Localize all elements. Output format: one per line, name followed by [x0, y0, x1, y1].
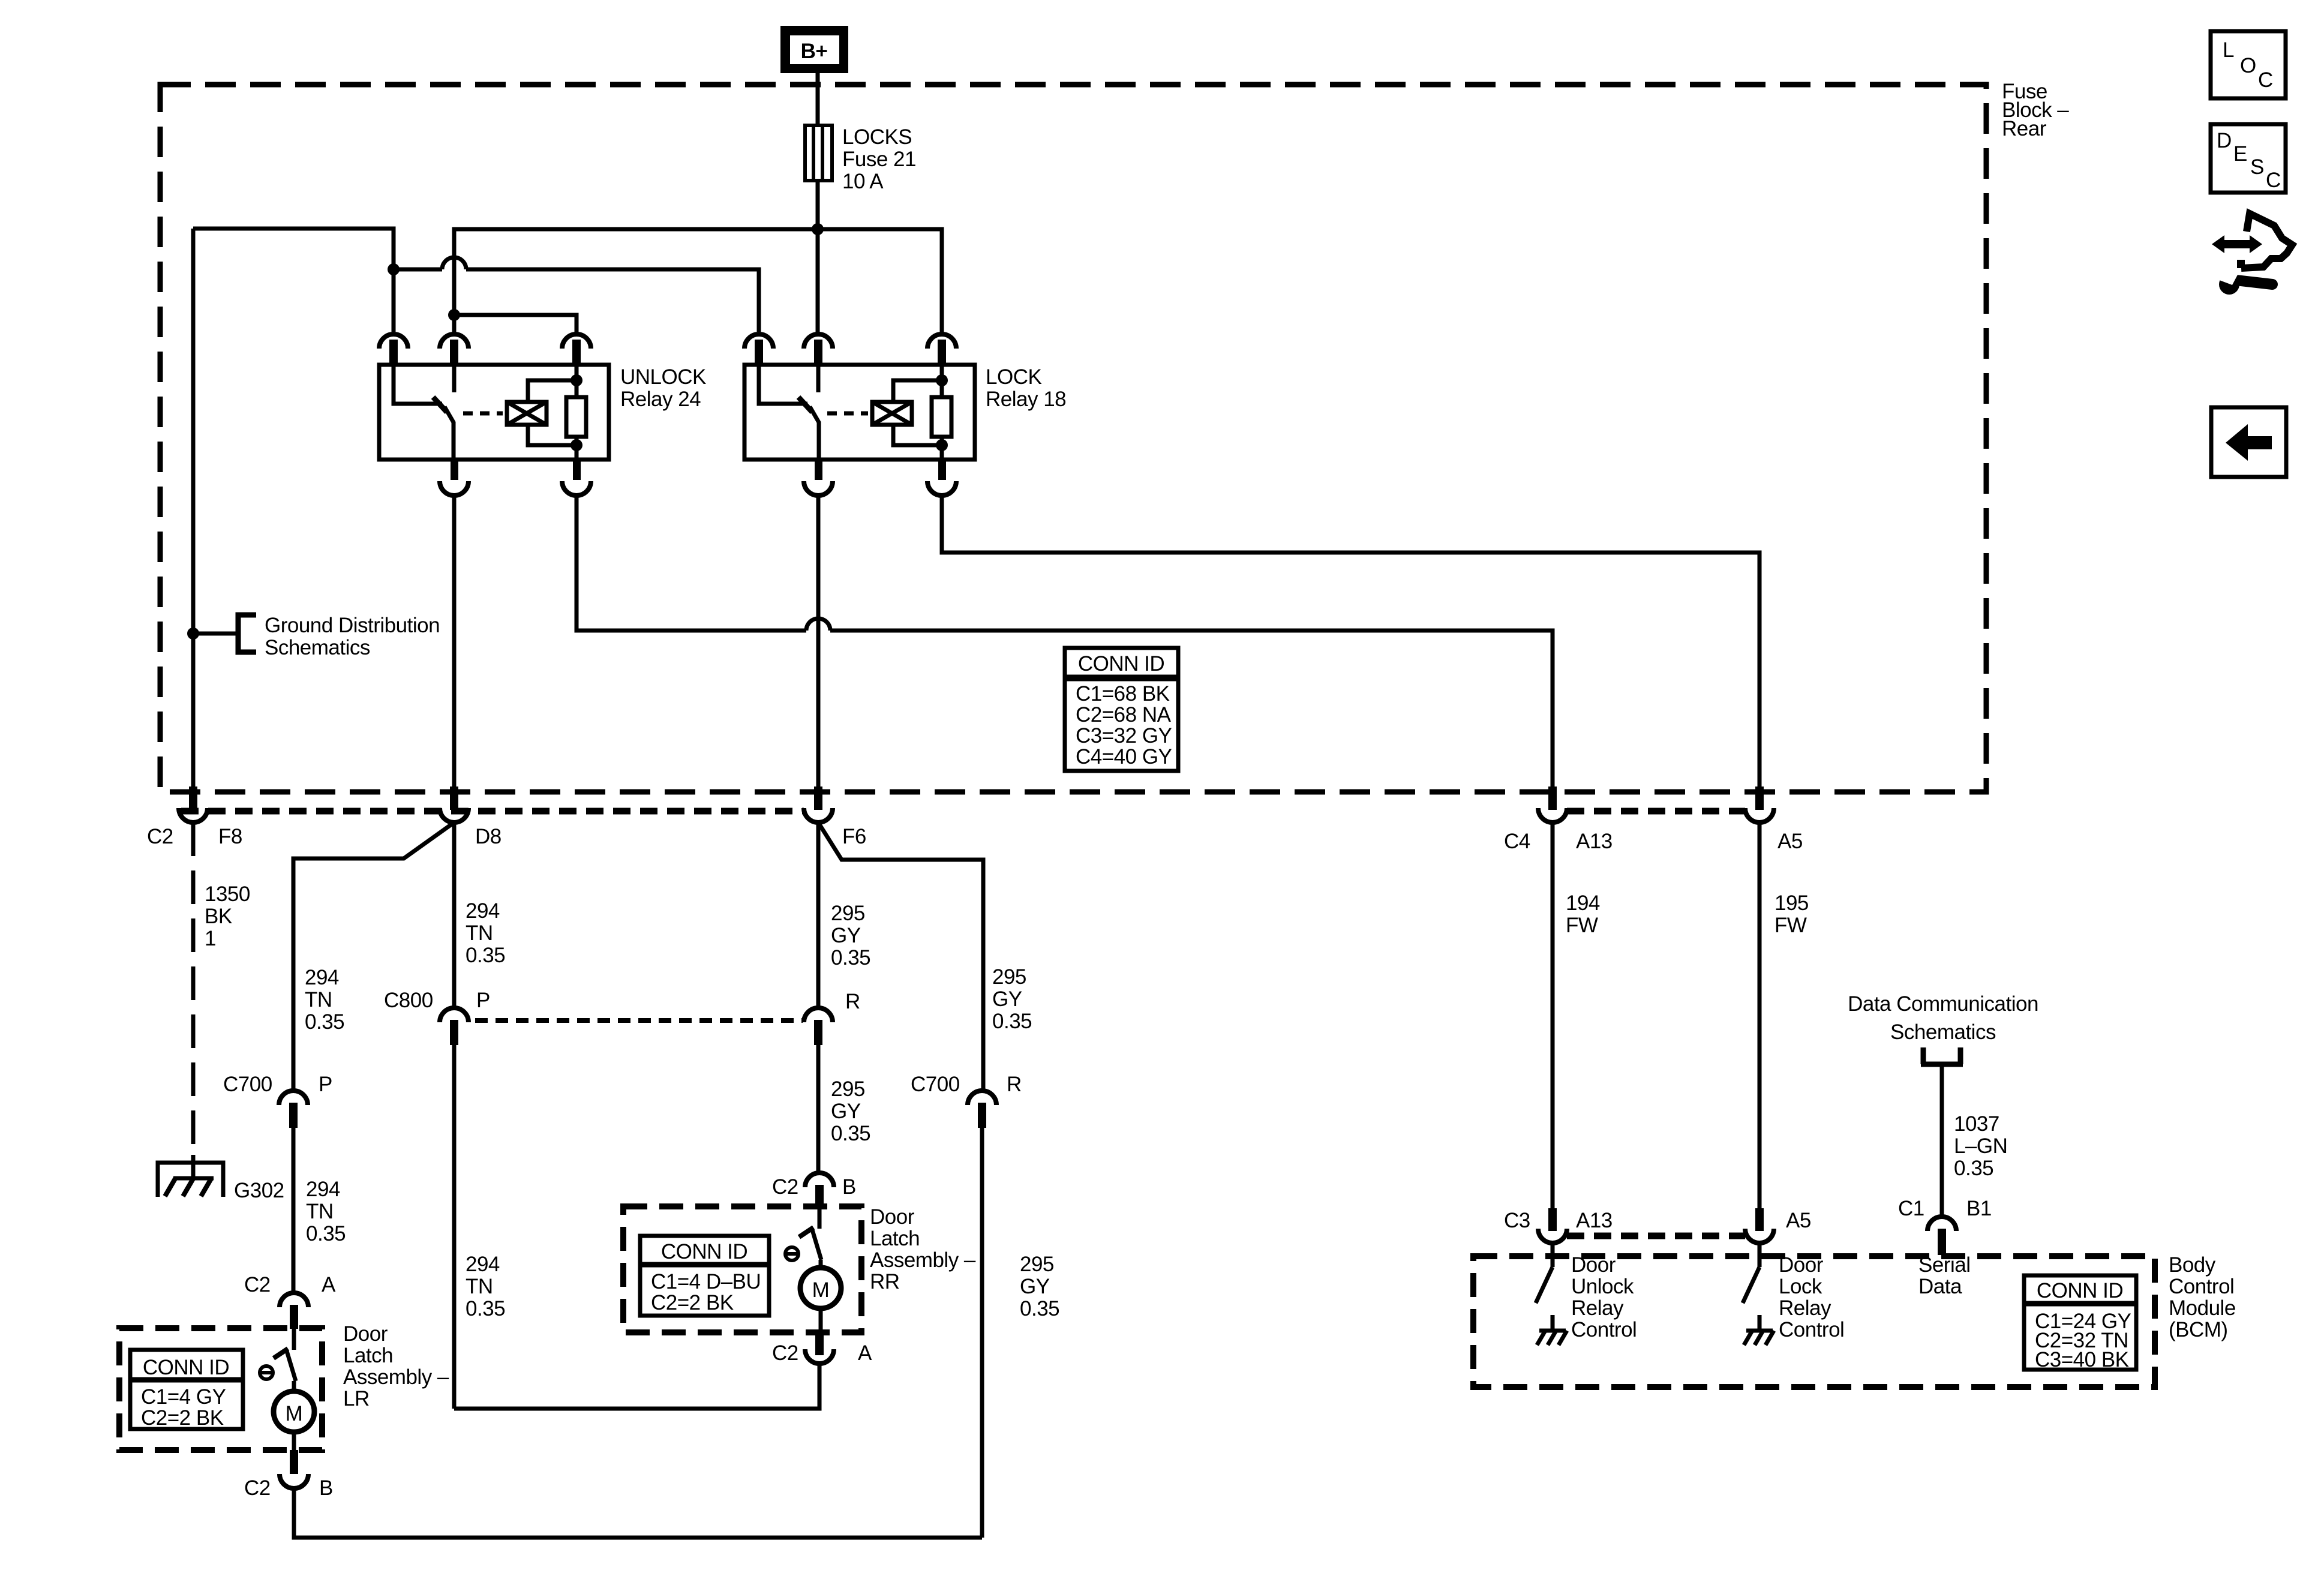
svg-text:M: M	[812, 1278, 830, 1302]
svg-text:GY: GY	[831, 924, 861, 947]
wire UNLOCK 87a down right to A13 column with hop	[577, 496, 806, 631]
svg-text:CONN ID: CONN ID	[1078, 652, 1164, 676]
icon LOC button	[2211, 31, 2286, 98]
connector A5 BCM	[1745, 1208, 1774, 1243]
connector UNLOCK pin 30 top-middle	[440, 334, 469, 365]
wire branch x757 to UNLOCK relay pin 86	[454, 315, 577, 334]
svg-text:C2: C2	[772, 1175, 798, 1199]
label C2 F8	[147, 825, 242, 848]
connector C700 P	[279, 1091, 308, 1128]
svg-text:Control: Control	[2169, 1275, 2234, 1298]
label 1037 L-GN 0.35	[1954, 1112, 2007, 1180]
conn table CONN ID fuse block	[1065, 648, 1178, 771]
label UNLOCK Relay 24	[620, 365, 706, 411]
svg-text:BK: BK	[205, 905, 232, 928]
svg-text:C4=40 GY: C4=40 GY	[1076, 745, 1172, 769]
connector LOCK pin 87 bottom-left	[804, 460, 833, 496]
dashed inline connector C800 P to R	[475, 1018, 803, 1023]
svg-text:LOCKS: LOCKS	[842, 125, 912, 149]
svg-text:10 A: 10 A	[842, 170, 884, 193]
wire B+ junction right to LOCK relay pin 86	[818, 229, 942, 334]
wire LOCK fixed contact L	[759, 365, 807, 404]
svg-text:C2: C2	[244, 1476, 271, 1500]
svg-text:294: 294	[466, 899, 500, 923]
op UNLOCK Relay 24 box	[379, 365, 609, 460]
wire serial data from bracket	[1940, 1064, 1944, 1217]
svg-text:195: 195	[1774, 891, 1809, 915]
svg-text:Unlock: Unlock	[1571, 1275, 1634, 1298]
svg-text:C700: C700	[223, 1073, 272, 1096]
svg-text:C3=32 GY: C3=32 GY	[1076, 724, 1172, 748]
svg-text:B: B	[319, 1476, 333, 1500]
label C2 A RR	[772, 1341, 872, 1365]
connector UNLOCK pin 87 bottom-left	[440, 460, 469, 496]
svg-text:1037: 1037	[1954, 1112, 1999, 1136]
node dot resistor top UNLOCK	[571, 374, 582, 386]
contact tick UNLOCK	[433, 397, 447, 412]
svg-text:F6: F6	[842, 825, 866, 848]
wire D8 straight to C800 P	[452, 822, 457, 1008]
svg-text:C1: C1	[1898, 1197, 1924, 1220]
svg-text:295: 295	[992, 965, 1026, 989]
svg-text:295: 295	[831, 1077, 865, 1101]
node Ground Distribution junction dot	[187, 628, 199, 640]
svg-text:R: R	[1007, 1073, 1022, 1096]
component Door Latch Assembly LR dashed box	[119, 1328, 322, 1450]
svg-text:C1=68 BK: C1=68 BK	[1076, 682, 1170, 706]
label Ground Distribution Schematics	[265, 614, 440, 659]
connector D8	[440, 786, 469, 822]
svg-text:Body: Body	[2169, 1253, 2216, 1277]
svg-text:Assembly –: Assembly –	[343, 1365, 449, 1389]
node junction dot x757	[448, 309, 460, 321]
wire D8 branch diagonal to C700 P column	[293, 822, 454, 1091]
connector UNLOCK pin 86 top-right	[562, 334, 591, 365]
fuse LOCKS Fuse 21 10A	[805, 125, 832, 181]
svg-text:E: E	[2233, 142, 2247, 166]
svg-text:L: L	[2223, 38, 2234, 62]
svg-text:(BCM): (BCM)	[2169, 1318, 2228, 1341]
svg-text:C800: C800	[384, 989, 433, 1012]
label C700 P	[223, 1073, 332, 1096]
svg-text:Door: Door	[1779, 1253, 1824, 1277]
label Serial Data	[1918, 1253, 1970, 1298]
label Door Latch Assembly LR	[343, 1322, 449, 1410]
polarity mark RR latch	[785, 1247, 798, 1260]
wire UNLOCK 87 down to D8	[452, 496, 457, 787]
node dot resistor bottom LOCK	[936, 439, 948, 451]
bracket Ground Distribution Schematics	[238, 615, 256, 652]
svg-text:1350: 1350	[205, 882, 250, 906]
conn table CONN ID BCM	[2024, 1275, 2136, 1371]
wire C800 P column down	[452, 1045, 457, 1409]
conn table CONN ID LR latch	[130, 1350, 243, 1430]
svg-text:C2=2 BK: C2=2 BK	[651, 1291, 734, 1314]
svg-text:Door: Door	[870, 1205, 915, 1229]
connector LOCK pin 87a bottom-right	[927, 460, 956, 496]
fuse block Fuse Block Rear dashed boundary	[160, 85, 1986, 792]
node B+ junction dot	[812, 223, 824, 235]
wire F6 straight to C800 R	[816, 822, 821, 1008]
connector C700 R	[968, 1091, 996, 1128]
wire LR latch B bottom run to C700 R column	[294, 1488, 982, 1538]
svg-text:L–GN: L–GN	[1954, 1134, 2007, 1158]
icon back arrow button	[2211, 407, 2286, 477]
motor M RR latch	[800, 1260, 841, 1332]
ground BCM unlock driver	[1537, 1315, 1567, 1345]
node junction dot x656	[388, 263, 400, 275]
svg-text:Schematics: Schematics	[265, 636, 370, 659]
connector C2 B LR latch	[280, 1450, 308, 1488]
svg-text:Relay 18: Relay 18	[986, 388, 1066, 411]
svg-text:R: R	[845, 990, 860, 1013]
connector C2 F8	[179, 786, 208, 822]
dotted connector row C4 A13 A5	[1567, 808, 1745, 815]
svg-text:0.35: 0.35	[466, 944, 505, 967]
svg-text:Latch: Latch	[870, 1227, 920, 1250]
svg-text:294: 294	[466, 1253, 500, 1276]
svg-text:B: B	[842, 1175, 856, 1199]
svg-text:Ground Distribution: Ground Distribution	[265, 614, 440, 637]
svg-text:A: A	[322, 1273, 336, 1296]
ground BCM lock driver	[1744, 1315, 1774, 1345]
svg-text:B+: B+	[801, 40, 828, 63]
svg-text:C: C	[2266, 169, 2281, 192]
label 295 GY 0.35 below C700 R	[1020, 1253, 1059, 1320]
switch Door Lock Relay Control	[1743, 1243, 1759, 1303]
wire B+ feed vertical	[816, 73, 820, 226]
wire cross feed to LOCK relay pin 85 with hop	[394, 268, 442, 272]
icon dog head with arrow and wrench	[2212, 214, 2292, 295]
svg-text:CONN ID: CONN ID	[143, 1356, 229, 1379]
connector UNLOCK pin 85 top-left	[379, 334, 408, 365]
wire coil top loop UNLOCK	[528, 380, 574, 402]
connector C2 A LR latch	[280, 1293, 308, 1329]
svg-text:Relay: Relay	[1779, 1296, 1831, 1320]
wire left loop top	[193, 229, 394, 332]
label 194 FW	[1566, 891, 1600, 937]
label 295 GY 0.35 right column upper	[992, 965, 1032, 1033]
svg-text:A13: A13	[1576, 1209, 1613, 1232]
coil UNLOCK	[507, 402, 547, 425]
svg-text:FW: FW	[1566, 914, 1598, 937]
svg-text:M: M	[286, 1402, 303, 1425]
wire B+ junction down to LOCK relay pin 30	[816, 229, 820, 334]
battery terminal B+	[780, 26, 848, 73]
svg-text:Lock: Lock	[1779, 1275, 1822, 1298]
switch LR latch	[274, 1329, 296, 1381]
svg-text:Door: Door	[1571, 1253, 1616, 1277]
svg-text:Serial: Serial	[1918, 1253, 1970, 1277]
conn table CONN ID RR latch	[640, 1236, 769, 1316]
svg-text:P: P	[319, 1073, 332, 1096]
polarity mark LR latch	[260, 1366, 273, 1379]
label fuse LOCKS Fuse 21 10 A	[842, 125, 916, 193]
svg-text:0.35: 0.35	[1954, 1157, 1993, 1180]
wire UNLOCK fixed contact L	[394, 365, 442, 404]
svg-text:D: D	[2217, 129, 2232, 152]
svg-text:A5: A5	[1786, 1209, 1811, 1232]
node dot resistor top LOCK	[936, 374, 948, 386]
label Door Unlock Relay Control	[1571, 1253, 1637, 1341]
wire LOCK 87 down to F6	[816, 496, 821, 787]
dotted connector row C3 A13 A5 BCM	[1567, 1233, 1745, 1239]
connector UNLOCK pin 87a bottom-right	[562, 460, 591, 496]
wire A5 column to BCM	[1758, 822, 1762, 1208]
svg-text:Control: Control	[1779, 1318, 1844, 1341]
svg-text:A: A	[858, 1341, 872, 1365]
svg-text:0.35: 0.35	[305, 1010, 344, 1034]
svg-text:0.35: 0.35	[831, 1122, 870, 1145]
svg-text:D8: D8	[475, 825, 502, 848]
wire B+ junction left to UNLOCK relay pin 30	[454, 229, 818, 334]
label 294 TN 0.35 at D8 column	[466, 899, 505, 967]
connector C800 P	[440, 1008, 469, 1045]
svg-text:0.35: 0.35	[831, 946, 870, 969]
label Fuse Block Rear	[2002, 80, 2069, 140]
svg-text:TN: TN	[305, 988, 332, 1011]
wire UNLOCK pin30 stub	[452, 365, 457, 392]
svg-text:F8: F8	[218, 825, 242, 848]
switch Door Unlock Relay Control	[1536, 1243, 1553, 1303]
connector C3 A13 BCM	[1538, 1208, 1567, 1243]
op LOCK Relay 18 box	[744, 365, 975, 460]
wire coil bottom loop LOCK	[893, 425, 939, 445]
svg-text:C2: C2	[772, 1341, 798, 1365]
svg-text:P: P	[476, 989, 490, 1012]
svg-text:Data: Data	[1918, 1275, 1962, 1298]
svg-text:B1: B1	[1966, 1197, 1992, 1220]
svg-text:C: C	[2258, 68, 2273, 92]
connector LOCK pin 30 top-middle	[804, 334, 833, 365]
label 1350 BK 1	[205, 882, 250, 950]
svg-text:Latch: Latch	[343, 1344, 393, 1367]
svg-text:CONN ID: CONN ID	[661, 1240, 747, 1263]
label 294 TN 0.35 lower middle	[466, 1253, 505, 1320]
svg-text:TN: TN	[466, 1275, 493, 1298]
svg-text:C700: C700	[911, 1073, 960, 1096]
wire A13 column to BCM	[1551, 822, 1555, 1208]
svg-text:Data Communication: Data Communication	[1848, 992, 2038, 1016]
svg-text:G302: G302	[234, 1179, 284, 1202]
wire 1350 BK dashed to G302	[191, 822, 196, 1155]
svg-text:C3: C3	[1504, 1209, 1530, 1232]
label C3 A13	[1504, 1209, 1613, 1232]
svg-text:C2: C2	[244, 1273, 271, 1296]
connector LOCK pin 85 top-left	[744, 334, 773, 365]
svg-text:294: 294	[306, 1178, 340, 1201]
svg-text:194: 194	[1566, 891, 1600, 915]
connector C2 A RR latch	[805, 1332, 834, 1364]
svg-text:Door: Door	[343, 1322, 388, 1346]
svg-text:C2=68 NA: C2=68 NA	[1076, 703, 1172, 727]
svg-text:295: 295	[1020, 1253, 1054, 1276]
dashed actuator link UNLOCK	[463, 412, 503, 416]
svg-text:Relay 24: Relay 24	[620, 388, 701, 411]
svg-text:C2: C2	[147, 825, 173, 848]
svg-text:Schematics: Schematics	[1890, 1020, 1996, 1044]
wire below C800 R to RR latch	[816, 1045, 821, 1173]
connector A5 fuse block	[1745, 786, 1774, 822]
label C2 A LR	[244, 1273, 336, 1296]
coil LOCK	[872, 402, 912, 425]
ground G302	[158, 1155, 223, 1197]
dotted connector row C2 F8 D8 F6	[181, 808, 804, 815]
wire C700 P down to LR latch	[292, 1128, 296, 1293]
svg-text:Assembly –: Assembly –	[870, 1248, 976, 1272]
connector C1 B1 BCM	[1927, 1217, 1956, 1255]
svg-text:Module: Module	[2169, 1296, 2236, 1320]
svg-text:C2=2 BK: C2=2 BK	[141, 1406, 224, 1430]
wire Ground Distribution branch	[193, 632, 238, 636]
label C700 R	[911, 1073, 1022, 1096]
switch arm LOCK	[810, 407, 819, 460]
label 195 FW	[1774, 891, 1809, 937]
dashed actuator link LOCK	[827, 412, 868, 416]
connector C800 R	[804, 1008, 833, 1045]
svg-text:O: O	[2240, 54, 2256, 77]
label Body Control Module BCM	[2169, 1253, 2236, 1341]
svg-text:C1=4 GY: C1=4 GY	[141, 1385, 226, 1409]
svg-text:295: 295	[831, 902, 865, 925]
label Door Lock Relay Control	[1779, 1253, 1844, 1341]
svg-text:C1=4 D–BU: C1=4 D–BU	[651, 1270, 761, 1293]
svg-text:GY: GY	[1020, 1275, 1050, 1298]
node dot resistor bottom UNLOCK	[571, 439, 582, 451]
label C2 B LR	[244, 1476, 333, 1500]
label Data Communication Schematics	[1848, 992, 2038, 1044]
label C800 P	[384, 989, 490, 1012]
switch RR latch	[799, 1208, 821, 1260]
motor M LR latch	[274, 1381, 314, 1450]
svg-text:Rear: Rear	[2002, 117, 2047, 140]
label 295 GY 0.35 at F6 column	[831, 902, 870, 969]
connector C4 A13	[1538, 786, 1567, 822]
svg-text:A13: A13	[1576, 830, 1613, 853]
svg-text:0.35: 0.35	[466, 1297, 505, 1320]
resistor UNLOCK	[566, 365, 586, 460]
svg-text:TN: TN	[306, 1200, 334, 1223]
svg-text:LOCK: LOCK	[986, 365, 1041, 389]
svg-text:Control: Control	[1571, 1318, 1637, 1341]
svg-text:Relay: Relay	[1571, 1296, 1624, 1320]
connector C2 B RR latch	[805, 1173, 834, 1208]
wire RR latch A to C800 P column	[454, 1364, 819, 1409]
connector F6	[804, 786, 833, 822]
label C1 B1	[1898, 1197, 1992, 1220]
connector LOCK pin 86 top-right	[927, 334, 956, 365]
icon DESC button	[2211, 124, 2286, 193]
label C4 A13	[1504, 830, 1613, 853]
svg-text:0.35: 0.35	[306, 1222, 346, 1245]
wire coil bottom loop UNLOCK	[528, 425, 574, 445]
svg-text:CONN ID: CONN ID	[2037, 1279, 2123, 1302]
svg-text:UNLOCK: UNLOCK	[620, 365, 706, 389]
resistor LOCK	[932, 365, 951, 460]
label Door Latch Assembly RR	[870, 1205, 976, 1293]
contact tick LOCK	[798, 397, 812, 412]
module Body Control Module BCM dashed box	[1473, 1256, 2155, 1387]
svg-text:Fuse 21: Fuse 21	[842, 148, 916, 171]
svg-text:GY: GY	[992, 987, 1022, 1011]
svg-text:FW: FW	[1774, 914, 1807, 937]
svg-text:C3=40 BK: C3=40 BK	[2035, 1348, 2129, 1371]
svg-text:S: S	[2250, 155, 2264, 179]
svg-text:GY: GY	[831, 1100, 861, 1123]
svg-text:A5: A5	[1777, 830, 1803, 853]
svg-text:RR: RR	[870, 1270, 900, 1293]
switch arm UNLOCK	[445, 407, 454, 460]
svg-text:0.35: 0.35	[1020, 1297, 1059, 1320]
label 294 TN 0.35 upper left	[305, 966, 344, 1034]
wire left vertical to C2 F8	[191, 229, 196, 787]
svg-text:TN: TN	[466, 921, 493, 945]
svg-text:0.35: 0.35	[992, 1010, 1032, 1033]
label 294 TN 0.35 below C700 P	[306, 1178, 346, 1245]
svg-text:294: 294	[305, 966, 339, 989]
label C2 B RR	[772, 1175, 856, 1199]
wire F6 branch diagonal to C700 R column	[818, 822, 983, 1091]
label LOCK Relay 18	[986, 365, 1066, 411]
svg-text:1: 1	[205, 927, 216, 950]
svg-text:C4: C4	[1504, 830, 1530, 853]
wire LOCK pin30 stub	[816, 365, 821, 392]
wire C700 R down to bottom run	[980, 1128, 984, 1538]
bracket Data Communication Schematics	[1921, 1047, 1963, 1064]
label 295 GY 0.35 below R	[831, 1077, 870, 1145]
svg-text:LR: LR	[343, 1387, 370, 1410]
component Door Latch Assembly RR dashed box	[623, 1206, 861, 1332]
wire LOCK 87a down right to A5 column	[942, 496, 1759, 787]
wire coil top loop LOCK	[893, 380, 939, 402]
